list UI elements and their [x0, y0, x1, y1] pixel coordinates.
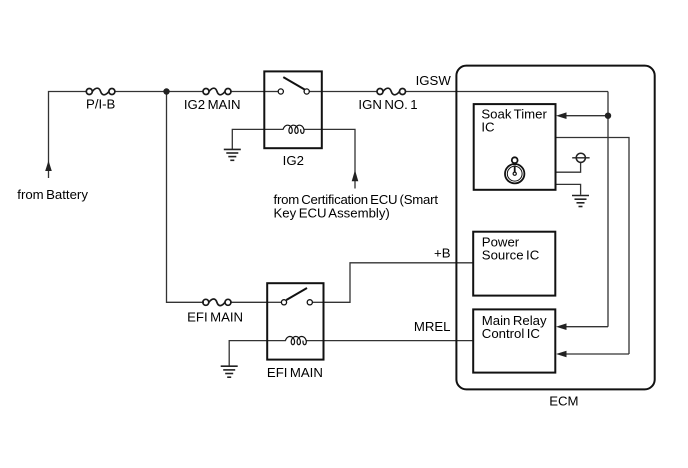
svg-text:IC: IC: [481, 120, 495, 135]
svg-text:IGSW: IGSW: [416, 73, 452, 88]
svg-text:EFI MAIN: EFI MAIN: [267, 365, 323, 380]
svg-text:IG2: IG2: [283, 153, 304, 168]
svg-text:Control IC: Control IC: [482, 326, 541, 341]
svg-text:P/I-B: P/I-B: [86, 97, 116, 112]
svg-text:IGN NO. 1: IGN NO. 1: [358, 97, 417, 112]
svg-text:ECM: ECM: [549, 393, 578, 408]
svg-text:from Battery: from Battery: [17, 187, 88, 202]
svg-text:IG2 MAIN: IG2 MAIN: [184, 97, 241, 112]
svg-text:MREL: MREL: [414, 319, 451, 334]
svg-text:from Certification ECU (Smart: from Certification ECU (Smart: [274, 192, 439, 207]
svg-text:+B: +B: [434, 246, 451, 261]
svg-text:Source IC: Source IC: [482, 248, 540, 263]
svg-text:Key ECU Assembly): Key ECU Assembly): [274, 206, 390, 221]
svg-text:EFI MAIN: EFI MAIN: [187, 310, 243, 325]
